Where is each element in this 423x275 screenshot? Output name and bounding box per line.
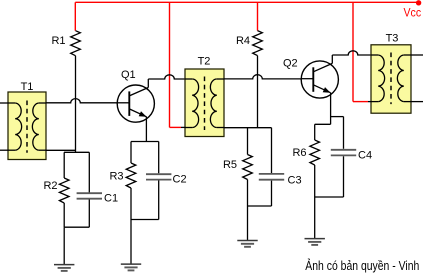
svg-text:T1: T1: [21, 81, 34, 93]
svg-text:T3: T3: [386, 33, 399, 45]
svg-text:C3: C3: [288, 175, 302, 187]
svg-text:R6: R6: [292, 147, 306, 159]
svg-text:R5: R5: [223, 159, 237, 171]
svg-text:C2: C2: [173, 174, 187, 186]
svg-text:C4: C4: [358, 150, 372, 162]
svg-text:Ảnh có bản quyền - Vinh: Ảnh có bản quyền - Vinh: [305, 258, 419, 273]
svg-text:R3: R3: [109, 171, 123, 183]
svg-text:Q2: Q2: [283, 58, 298, 70]
svg-text:T2: T2: [198, 56, 211, 68]
svg-text:R2: R2: [43, 180, 57, 192]
svg-text:Vcc: Vcc: [404, 7, 422, 19]
svg-text:Q1: Q1: [121, 69, 136, 81]
svg-text:C1: C1: [104, 193, 118, 205]
svg-text:R1: R1: [51, 35, 65, 47]
svg-text:R4: R4: [236, 35, 250, 47]
